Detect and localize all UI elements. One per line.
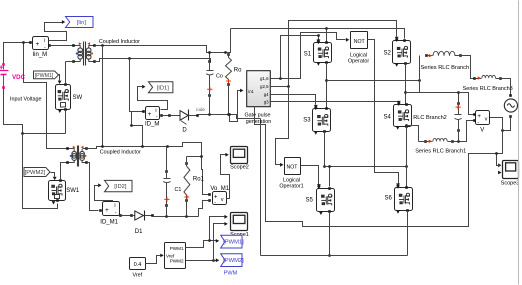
svg-text:NOT: NOT — [354, 39, 366, 45]
svg-text:in1: in1 — [248, 89, 254, 94]
mosfet S1 — [314, 43, 332, 63]
coupled inductor transformer 2 — [68, 148, 75, 150]
from tag [PWM2] — [24, 168, 50, 177]
wire S6 source to bottom rail — [407, 211, 409, 256]
series RLC branch inductor — [425, 54, 428, 57]
constant Vref 0.4 — [130, 258, 146, 270]
DC voltage source VDC — [2, 63, 5, 66]
current measurement ID_M1 — [103, 202, 120, 216]
wire cap node to V+ input — [459, 93, 474, 115]
svg-text:Ro: Ro — [234, 68, 242, 74]
wire S3 source down to node — [324, 132, 326, 167]
wire SW drain up to transformer — [65, 62, 67, 85]
wire transformer1 secondary top long node — [95, 29, 231, 53]
wire NOT1 output to S5 gate — [301, 166, 319, 185]
scope Scope2 — [231, 147, 248, 164]
svg-text:0.4: 0.4 — [134, 262, 142, 268]
svg-text:+: + — [36, 41, 40, 48]
svg-text:S2: S2 — [384, 51, 392, 57]
svg-text:g4: g4 — [264, 92, 269, 97]
svg-text:PWM1: PWM1 — [170, 246, 184, 251]
svg-text:NOT: NOT — [287, 165, 299, 171]
svg-text:PWM: PWM — [224, 271, 238, 277]
output2 node wire — [103, 143, 209, 195]
wire ID_M1 i output to ID2 tag — [95, 186, 113, 203]
svg-text:+: + — [105, 207, 109, 214]
mosfet S2 — [393, 41, 411, 64]
svg-text:Operator1: Operator1 — [279, 184, 303, 190]
svg-text:Coupled Inductor: Coupled Inductor — [100, 149, 141, 155]
svg-text:i: i — [155, 108, 156, 114]
svg-text:Co: Co — [216, 74, 223, 80]
wire S5 source to bottom rail — [329, 212, 331, 256]
wire node branch to Ro1 — [187, 156, 202, 158]
svg-text:g1,6: g1,6 — [260, 76, 269, 81]
wire transformer1 secondary top down to output2 node — [102, 46, 104, 147]
svg-text:Vref: Vref — [132, 273, 142, 279]
mosfet SW — [56, 85, 71, 110]
wire PWM1 output to goto tag — [186, 241, 217, 248]
current measurement Iin_M — [33, 37, 49, 50]
svg-text:S5: S5 — [306, 198, 314, 204]
svg-text:Scope3: Scope3 — [501, 181, 520, 187]
wire NOT output to S6 gate — [368, 40, 399, 184]
logical operator NOT1 — [285, 158, 301, 175]
svg-text:S4: S4 — [384, 114, 392, 120]
logical operator NOT — [346, 38, 349, 42]
wire VDC+ to Iin_M — [4, 43, 31, 65]
subsystem PWM — [165, 243, 186, 269]
svg-text:-: - — [156, 114, 158, 120]
wire gate block feedback from V measurement — [255, 107, 503, 227]
svg-text:-: - — [115, 210, 117, 216]
mosfet SW1 — [49, 181, 66, 201]
svg-text:v: v — [221, 197, 224, 203]
svg-text:SW1: SW1 — [66, 188, 80, 194]
svg-text:+: + — [148, 111, 152, 118]
wire Vref to PWM block — [146, 256, 161, 264]
svg-text:Operator: Operator — [348, 59, 369, 65]
scope Scope3 — [503, 161, 519, 179]
svg-text:Series RLC Branch: Series RLC Branch — [421, 65, 470, 71]
wire RLC1 left to S4 leg — [419, 141, 426, 143]
wire Vo_M1 minus to bottom rail — [199, 201, 210, 217]
wire RLC branch right to RLC branch3 — [461, 56, 475, 79]
svg-text:Scope2: Scope2 — [230, 165, 249, 171]
current measurement ID_M — [146, 107, 160, 120]
svg-text:ID_M1: ID_M1 — [100, 220, 118, 226]
voltage measurement V — [476, 111, 490, 125]
goto tag [ID1] — [142, 85, 145, 89]
wire node down to S5 drain — [329, 167, 331, 187]
svg-text:S3: S3 — [303, 118, 311, 124]
svg-text:S6: S6 — [385, 196, 393, 202]
wire S3-S5 mid node rail — [325, 166, 407, 168]
svg-text:iode: iode — [196, 107, 205, 112]
wire PWM2 branch to Scope1 — [214, 224, 225, 261]
goto tag [ID2] — [98, 183, 101, 187]
svg-text:v: v — [485, 117, 488, 123]
wire cap branch top node — [406, 93, 459, 104]
coupled inductor transformer 1 — [74, 45, 81, 47]
wire ID_M output to diode D — [162, 115, 170, 117]
mosfet S5 — [317, 189, 335, 212]
wire output2 bottom rail — [153, 216, 199, 218]
resistor Ro1 — [185, 162, 188, 165]
svg-text:C1: C1 — [175, 187, 182, 193]
svg-text:-: - — [214, 200, 216, 206]
wire AC source bottom to V measurement node — [503, 117, 511, 131]
mosfet S6 — [395, 188, 413, 211]
svg-text:V: V — [480, 128, 484, 134]
wire VDC+ branch to transformer2 primary — [24, 43, 68, 149]
svg-text:Input Voltage: Input Voltage — [10, 97, 41, 103]
wire Vo_M1 output to Scope2 — [221, 155, 230, 199]
svg-text:i: i — [114, 203, 115, 209]
goto tag [PWM2] blue — [221, 254, 242, 267]
wire output1 node rail — [198, 115, 261, 119]
wire Iin_M i output to Goto Iin — [45, 23, 67, 41]
diode D — [168, 114, 171, 117]
wire node to in1 of gate pulse generation — [230, 91, 241, 122]
wire ground rail to SW source — [23, 133, 66, 135]
svg-text:g3: g3 — [264, 99, 269, 104]
svg-text:Coupled Inductor: Coupled Inductor — [99, 39, 140, 45]
wire ID_M i output to ID1 tag — [138, 87, 168, 110]
mosfet S4 — [394, 105, 412, 127]
wire g1,6 output — [271, 33, 346, 79]
wire g4 output to S3 gate — [271, 95, 316, 105]
wire S2 leg mid to RLC branch left — [406, 56, 420, 93]
svg-text:[PWM2]: [PWM2] — [223, 258, 244, 264]
svg-text:D1: D1 — [135, 229, 143, 235]
capacitor C1 — [165, 170, 168, 173]
wire PWM2 output to goto tag — [186, 260, 217, 262]
svg-text:g2,5: g2,5 — [260, 84, 269, 89]
svg-text:Ro1: Ro1 — [193, 176, 205, 182]
canvas edge line — [518, 1, 520, 285]
mosfet S3 — [313, 109, 331, 132]
wire bridge mid rail S1 leg to RLC branch — [327, 80, 420, 82]
wire g3 output to S4 gate — [271, 101, 399, 103]
capacitor Co — [208, 60, 211, 63]
series RLC branch2 capacitor — [457, 102, 460, 105]
svg-text:D: D — [182, 128, 187, 134]
svg-text:Gate pulse: Gate pulse — [244, 113, 270, 119]
wire ID_M1 to diode D1 — [121, 215, 132, 217]
wire PWM1 to SW gate — [59, 75, 60, 81]
wire output1 rail down to inverter source rail — [260, 119, 262, 256]
diode D1 — [130, 214, 133, 217]
wire ground rail down to SW1 source rail — [23, 134, 58, 209]
svg-text:[PWM1]: [PWM1] — [223, 240, 244, 246]
svg-text:S1: S1 — [304, 51, 312, 57]
wire DC bus rail to S1 S2 drains — [231, 29, 405, 39]
scope Scope1 — [231, 213, 248, 231]
wire transformer2 secondary bottom to ID_M1 — [87, 163, 99, 211]
wire Iin_M output to coupled inductor — [50, 45, 74, 47]
svg-text:-: - — [44, 45, 46, 51]
series RLC branch3 inductor — [473, 77, 476, 80]
wire RLC1 right to cap bottom and V- — [453, 121, 474, 142]
wire feedback branch to Scope3 — [497, 154, 501, 166]
wire PWM1 branch to Scope1 — [210, 217, 225, 241]
svg-text:[Iin]: [Iin] — [77, 20, 87, 26]
svg-text:PWM2: PWM2 — [170, 259, 184, 264]
wire g1,6 branch to S1 gate — [281, 36, 319, 79]
wire PWM2 tag to SW1 gate — [51, 173, 55, 177]
wire S4 leg mid to RLC branch1 left — [407, 126, 419, 142]
svg-text:-: - — [478, 120, 480, 126]
AC voltage source — [509, 94, 512, 97]
wire g2,5 output to S2 gate — [271, 86, 289, 88]
wire RLC branch3 to AC source — [501, 79, 511, 96]
wire g2,5 branch down to NOT1 — [276, 87, 289, 165]
wire S1 source down to S3 drain — [326, 63, 328, 108]
svg-text:[PWM2]: [PWM2] — [25, 170, 46, 176]
goto tag [Iin] — [66, 17, 94, 28]
wire secondary node down to ID_M input — [130, 59, 143, 112]
svg-text:i: i — [44, 38, 45, 44]
svg-text:generation: generation — [246, 119, 271, 125]
svg-text:SW: SW — [73, 95, 83, 101]
svg-text:Series RLC Branch3: Series RLC Branch3 — [463, 86, 513, 92]
wire bus to S1 drain — [326, 29, 328, 43]
svg-text:[PWM1]: [PWM1] — [35, 73, 54, 79]
svg-text:ID_M: ID_M — [145, 121, 159, 127]
wire transformer1 primary bottom to SW drain — [66, 61, 74, 63]
wire SW1 drain to transformer2 — [61, 163, 68, 181]
from tag [PWM1] — [34, 71, 59, 79]
wire V output down via AC node — [502, 118, 504, 154]
goto tag [PWM1] blue — [221, 235, 242, 248]
wire S2 source down to S4 drain — [405, 64, 407, 105]
resistor Ro — [227, 53, 230, 56]
wire SW source to ground rail — [65, 110, 67, 134]
wire ID_M input branch — [132, 112, 143, 147]
series RLC branch1 inductor — [424, 140, 427, 143]
wire VDC- down to ground rail — [4, 88, 23, 134]
svg-text:[ID1]: [ID1] — [157, 85, 170, 91]
wire S4 source down to S6 drain — [406, 127, 408, 187]
wire transformer1 secondary bottom node — [95, 59, 211, 63]
svg-text:Iin_M: Iin_M — [33, 52, 48, 58]
wire inverter bottom rail — [261, 255, 408, 257]
wire transformer2 secondary top to output2 node — [87, 147, 103, 149]
svg-text:[ID2]: [ID2] — [114, 184, 127, 190]
svg-text:Series RLC Branch1: Series RLC Branch1 — [415, 148, 466, 154]
